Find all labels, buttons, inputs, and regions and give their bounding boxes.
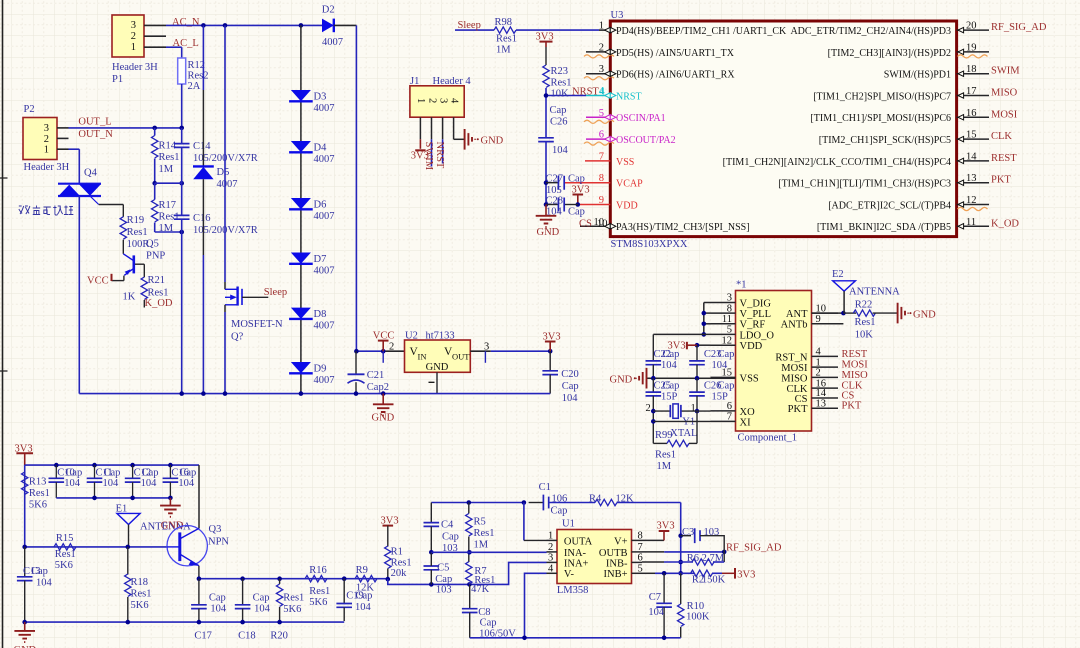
svg-text:MISO: MISO (842, 370, 869, 381)
svg-text:1: 1 (415, 98, 426, 103)
svg-text:4007: 4007 (314, 211, 335, 222)
svg-text:C5: C5 (437, 563, 449, 574)
svg-text:Res1: Res1 (855, 317, 876, 328)
svg-text:U3: U3 (611, 10, 624, 21)
svg-text:E2: E2 (832, 269, 844, 280)
svg-text:R9: R9 (356, 565, 368, 576)
svg-text:104: 104 (562, 393, 579, 404)
svg-text:ANTENNA: ANTENNA (849, 286, 900, 297)
svg-text:Cap2: Cap2 (367, 382, 389, 393)
svg-text:ht7133: ht7133 (426, 331, 455, 342)
svg-text:Cap: Cap (442, 532, 459, 543)
svg-text:104: 104 (210, 604, 227, 615)
svg-text:3V3: 3V3 (657, 520, 675, 531)
svg-text:[TIM1_CH2]SPI_MISO/(HS)PC7: [TIM1_CH2]SPI_MISO/(HS)PC7 (813, 91, 951, 102)
svg-text:Res1: Res1 (131, 589, 152, 600)
svg-text:GND: GND (537, 227, 560, 238)
svg-text:[TIM1_CH2N][AIN2]/CLK_CCO/TIM1: [TIM1_CH2N][AIN2]/CLK_CCO/TIM1_CH4/(HS)P… (723, 157, 951, 168)
svg-text:D8: D8 (314, 309, 327, 320)
svg-text:ANT: ANT (786, 309, 808, 320)
svg-text:2: 2 (645, 403, 650, 414)
svg-text:R19: R19 (127, 215, 145, 226)
svg-text:Cap: Cap (568, 174, 585, 185)
svg-text:[TIM1_CH1N][TLI]/TIM1_CH3/(HS): [TIM1_CH1N][TLI]/TIM1_CH3/(HS)PC3 (778, 179, 951, 190)
svg-text:LDO_O: LDO_O (740, 330, 775, 341)
svg-text:XTAL: XTAL (670, 428, 697, 439)
svg-text:VDD: VDD (740, 341, 763, 352)
svg-text:R10: R10 (687, 601, 705, 612)
svg-text:11: 11 (966, 217, 976, 228)
svg-text:1: 1 (691, 403, 696, 414)
svg-text:R14: R14 (159, 141, 177, 152)
svg-text:STM8S103XPXX: STM8S103XPXX (611, 239, 688, 250)
svg-text:V+: V+ (614, 536, 628, 547)
svg-text:104: 104 (178, 478, 195, 489)
svg-text:13: 13 (966, 173, 977, 184)
svg-text:6: 6 (727, 401, 732, 412)
svg-text:18: 18 (966, 64, 977, 75)
svg-text:R6 2.7M: R6 2.7M (687, 553, 725, 564)
svg-text:3: 3 (548, 552, 553, 563)
svg-text:K_OD: K_OD (991, 218, 1019, 229)
svg-text:IN: IN (418, 352, 427, 362)
svg-text:104: 104 (712, 360, 729, 371)
svg-text:R18: R18 (131, 577, 149, 588)
svg-text:Res1: Res1 (159, 212, 180, 223)
svg-text:R21: R21 (148, 275, 166, 286)
svg-text:D6: D6 (314, 200, 327, 211)
svg-text:Res1: Res1 (159, 152, 180, 163)
svg-text:V_PLL: V_PLL (740, 309, 772, 320)
svg-text:R98: R98 (495, 17, 513, 28)
svg-text:RF_SIG_AD: RF_SIG_AD (991, 22, 1047, 33)
svg-text:V_RF: V_RF (740, 320, 766, 331)
svg-text:5K6: 5K6 (131, 600, 149, 611)
svg-text:6: 6 (638, 552, 643, 563)
svg-text:D7: D7 (314, 254, 327, 265)
svg-text:4007: 4007 (314, 103, 335, 114)
svg-text:2: 2 (131, 31, 136, 42)
svg-text:R5: R5 (474, 517, 486, 528)
svg-text:Cap: Cap (104, 467, 121, 478)
svg-text:OSCIN/PA1: OSCIN/PA1 (616, 113, 666, 124)
svg-text:105: 105 (546, 185, 562, 196)
svg-text:NRST: NRST (616, 91, 642, 102)
svg-text:1M: 1M (496, 45, 511, 56)
svg-text:Res1: Res1 (29, 488, 50, 499)
svg-text:4007: 4007 (217, 179, 238, 190)
svg-text:OUTB: OUTB (599, 548, 628, 559)
svg-text:*1: *1 (736, 280, 747, 291)
svg-text:2: 2 (548, 542, 553, 553)
svg-text:3: 3 (437, 98, 448, 103)
svg-text:PA3(HS)/TIM2_CH3/[SPI_NSS]: PA3(HS)/TIM2_CH3/[SPI_NSS] (616, 222, 750, 233)
svg-text:C1: C1 (539, 482, 551, 493)
svg-text:4: 4 (448, 98, 459, 104)
svg-text:5: 5 (638, 563, 643, 574)
svg-text:OUTA: OUTA (564, 536, 593, 547)
svg-text:Q5: Q5 (146, 239, 159, 250)
svg-text:R1: R1 (391, 547, 403, 558)
svg-text:Cap: Cap (568, 207, 585, 218)
svg-text:U2: U2 (405, 331, 418, 342)
svg-text:10K: 10K (551, 89, 570, 100)
svg-text:MISO: MISO (781, 373, 808, 384)
svg-text:Header 3H: Header 3H (112, 62, 158, 73)
svg-text:SWIM: SWIM (991, 66, 1020, 77)
svg-text:1: 1 (44, 145, 49, 156)
svg-text:1: 1 (131, 42, 136, 53)
svg-text:VCC: VCC (373, 331, 395, 342)
svg-text:MISO: MISO (991, 88, 1018, 99)
svg-text:Cap: Cap (31, 566, 48, 577)
svg-text:Res1: Res1 (474, 528, 495, 539)
svg-text:Header 4: Header 4 (433, 76, 472, 87)
svg-text:GND: GND (481, 136, 504, 147)
svg-text:C8: C8 (478, 607, 490, 618)
svg-text:Sleep: Sleep (458, 20, 481, 31)
svg-text:7: 7 (727, 412, 732, 423)
svg-text:3V3: 3V3 (543, 331, 561, 342)
svg-text:Cap: Cap (718, 381, 735, 392)
svg-text:3: 3 (131, 20, 136, 31)
svg-text:[TIM1_CH1]/SPI_MOSI/(HS)PC6: [TIM1_CH1]/SPI_MOSI/(HS)PC6 (810, 113, 951, 124)
svg-text:1M: 1M (474, 540, 489, 551)
svg-text:INB-: INB- (606, 558, 628, 569)
svg-text:104: 104 (36, 578, 53, 589)
svg-text:P1: P1 (112, 74, 123, 85)
svg-text:C16: C16 (193, 213, 211, 224)
svg-text:Sleep: Sleep (264, 287, 287, 298)
svg-text:OUT_N: OUT_N (78, 129, 113, 140)
svg-text:Res1: Res1 (283, 593, 304, 604)
svg-text:5: 5 (727, 325, 732, 336)
svg-text:104: 104 (661, 360, 678, 371)
svg-text:NPN: NPN (208, 537, 229, 548)
svg-text:P2: P2 (24, 104, 35, 115)
svg-text:Res1: Res1 (391, 558, 412, 569)
svg-text:47K: 47K (471, 584, 490, 595)
svg-text:R20: R20 (270, 631, 288, 642)
svg-text:11: 11 (722, 314, 732, 325)
svg-text:PD5(HS) /AIN5/UART1_TX: PD5(HS) /AIN5/UART1_TX (616, 48, 735, 59)
svg-text:Cap: Cap (179, 467, 196, 478)
svg-text:LM358: LM358 (557, 585, 589, 596)
svg-text:10K: 10K (855, 330, 874, 341)
svg-text:104: 104 (355, 602, 372, 613)
svg-text:4007: 4007 (322, 37, 343, 48)
svg-text:C26: C26 (550, 117, 568, 128)
svg-text:R16: R16 (309, 565, 327, 576)
svg-text:15P: 15P (712, 392, 729, 403)
svg-text:Header 3H: Header 3H (24, 162, 70, 173)
svg-text:Cap: Cap (551, 506, 568, 517)
svg-text:VCAP: VCAP (616, 179, 643, 190)
svg-text:CS: CS (579, 219, 592, 230)
svg-text:[TIM1_BKIN]I2C_SDA /(T)PB5: [TIM1_BKIN]I2C_SDA /(T)PB5 (817, 222, 951, 233)
svg-text:NRST: NRST (434, 142, 445, 169)
svg-text:Cap: Cap (562, 381, 579, 392)
svg-text:104: 104 (254, 604, 271, 615)
svg-text:R17: R17 (159, 200, 177, 211)
svg-text:OSCOUT/PA2: OSCOUT/PA2 (616, 135, 676, 146)
svg-text:Res1: Res1 (55, 549, 76, 560)
svg-text:Cap: Cap (718, 349, 735, 360)
svg-text:GND: GND (426, 362, 449, 373)
svg-text:4007: 4007 (314, 321, 335, 332)
svg-text:D5: D5 (217, 167, 230, 178)
svg-text:4: 4 (816, 347, 822, 358)
svg-text:C21: C21 (367, 370, 385, 381)
svg-text:12: 12 (966, 195, 977, 206)
svg-text:2: 2 (389, 342, 394, 353)
svg-text:AC_N: AC_N (172, 17, 200, 28)
svg-text:Res1: Res1 (309, 586, 330, 597)
svg-text:PD6(HS) /AIN6/UART1_RX: PD6(HS) /AIN6/UART1_RX (616, 70, 735, 81)
svg-text:PD4(HS)/BEEP/TIM2_CH1 /UART1_C: PD4(HS)/BEEP/TIM2_CH1 /UART1_CK (616, 26, 787, 37)
svg-text:Cap: Cap (253, 593, 270, 604)
svg-text:2: 2 (426, 98, 437, 103)
svg-text:NRST: NRST (572, 87, 599, 98)
svg-text:104: 104 (64, 478, 81, 489)
svg-text:1: 1 (548, 530, 553, 541)
svg-text:R12: R12 (188, 60, 206, 71)
svg-text:Cap: Cap (435, 574, 452, 585)
svg-text:XO: XO (740, 407, 756, 418)
svg-text:4007: 4007 (314, 375, 335, 386)
svg-text:INB+: INB+ (603, 569, 627, 580)
svg-text:V_DIG: V_DIG (740, 298, 772, 309)
svg-text:Q4: Q4 (84, 168, 98, 179)
svg-text:C20: C20 (561, 369, 579, 380)
svg-text:104: 104 (103, 478, 120, 489)
svg-text:Res1: Res1 (496, 34, 517, 45)
svg-text:Cap: Cap (65, 467, 82, 478)
svg-text:5K6: 5K6 (283, 604, 301, 615)
svg-text:C7: C7 (649, 592, 661, 603)
svg-text:U1: U1 (562, 519, 575, 530)
svg-text:16: 16 (966, 108, 977, 119)
svg-text:K_OD: K_OD (145, 298, 173, 309)
svg-text:1K: 1K (123, 292, 136, 303)
svg-text:13: 13 (816, 399, 827, 410)
svg-text:INA+: INA+ (564, 558, 589, 569)
svg-text:Res1: Res1 (551, 78, 572, 89)
svg-text:Res1: Res1 (127, 227, 148, 238)
svg-text:2: 2 (44, 134, 49, 145)
svg-text:1: 1 (599, 21, 604, 32)
svg-text:19: 19 (966, 42, 977, 53)
svg-text:[TIM2_CH1]SPI_SCK/(HS)PC5: [TIM2_CH1]SPI_SCK/(HS)PC5 (819, 135, 951, 146)
svg-text:C28: C28 (546, 195, 564, 206)
svg-text:12: 12 (722, 335, 733, 346)
svg-text:OUT_L: OUT_L (78, 116, 111, 127)
svg-text:R22: R22 (855, 299, 873, 310)
svg-text:3: 3 (727, 293, 732, 304)
svg-text:C27: C27 (546, 173, 564, 184)
svg-text:ADC_ETR/TIM2_CH2/AIN4/(HS)PD3: ADC_ETR/TIM2_CH2/AIN4/(HS)PD3 (790, 26, 951, 37)
svg-text:C3: C3 (682, 527, 694, 538)
svg-text:C18: C18 (238, 631, 256, 642)
svg-text:2A: 2A (188, 81, 201, 92)
svg-text:2: 2 (816, 368, 821, 379)
svg-text:VSS: VSS (740, 373, 759, 384)
svg-text:Cap: Cap (142, 467, 159, 478)
svg-text:8: 8 (727, 303, 732, 314)
svg-text:VCC: VCC (87, 276, 109, 287)
svg-text:Cap: Cap (550, 105, 567, 116)
svg-text:R13: R13 (29, 477, 47, 488)
svg-text:D9: D9 (314, 364, 327, 375)
svg-text:XI: XI (740, 417, 752, 428)
svg-text:Cap: Cap (209, 593, 226, 604)
svg-text:[TIM2_CH3][AIN3]/(HS)PD2: [TIM2_CH3][AIN3]/(HS)PD2 (828, 48, 951, 59)
svg-text:PNP: PNP (146, 251, 165, 262)
svg-text:20: 20 (966, 21, 977, 32)
svg-text:ANTb: ANTb (781, 320, 808, 331)
svg-text:4: 4 (600, 87, 606, 98)
svg-text:Cap: Cap (356, 591, 373, 602)
svg-text:VDD: VDD (616, 200, 638, 211)
svg-text:Cap: Cap (663, 381, 680, 392)
svg-text:104: 104 (552, 145, 569, 156)
svg-text:15P: 15P (661, 392, 678, 403)
svg-text:3V3: 3V3 (737, 570, 755, 581)
svg-text:C17: C17 (194, 631, 212, 642)
svg-text:RF_SIG_AD: RF_SIG_AD (726, 542, 782, 553)
svg-text:4007: 4007 (314, 266, 335, 277)
svg-text:V-: V- (564, 569, 575, 580)
svg-text:R4: R4 (589, 494, 602, 505)
svg-text:SWIM: SWIM (423, 142, 434, 171)
svg-text:D2: D2 (322, 5, 335, 16)
svg-text:5K6: 5K6 (55, 560, 73, 571)
svg-text:104: 104 (141, 478, 158, 489)
svg-text:OUT: OUT (452, 352, 470, 362)
svg-text:D3: D3 (314, 92, 327, 103)
svg-text:Component_1: Component_1 (738, 433, 798, 444)
svg-text:R99: R99 (655, 430, 673, 441)
svg-text:REST: REST (991, 153, 1017, 164)
svg-text:Cap: Cap (663, 349, 680, 360)
svg-text:R15: R15 (56, 533, 74, 544)
svg-text:Res1: Res1 (655, 450, 676, 461)
svg-text:1M: 1M (159, 164, 174, 175)
svg-text:R23: R23 (551, 66, 569, 77)
svg-text:14: 14 (966, 151, 977, 162)
svg-text:GND: GND (372, 413, 395, 424)
svg-text:C4: C4 (441, 520, 454, 531)
svg-text:GND: GND (610, 374, 633, 385)
svg-text:10: 10 (597, 219, 608, 230)
svg-text:D4: D4 (314, 143, 328, 154)
svg-text:3: 3 (44, 123, 49, 134)
svg-text:8: 8 (638, 530, 643, 541)
svg-text:4007: 4007 (314, 154, 335, 165)
svg-text:INA-: INA- (564, 548, 587, 559)
svg-text:PKT: PKT (842, 401, 862, 412)
svg-text:MOSI: MOSI (991, 109, 1018, 120)
svg-text:SWIM/(HS)PD1: SWIM/(HS)PD1 (884, 70, 951, 81)
svg-text:REST: REST (842, 349, 868, 360)
svg-text:100K: 100K (686, 612, 710, 623)
svg-text:GND: GND (913, 309, 936, 320)
svg-text:5K6: 5K6 (309, 597, 327, 608)
svg-text:Q?: Q? (231, 332, 244, 343)
svg-text:104: 104 (648, 607, 665, 618)
svg-text:MOSFET-N: MOSFET-N (231, 319, 283, 330)
svg-text:PKT: PKT (788, 404, 808, 415)
svg-text:15: 15 (966, 130, 977, 141)
svg-text:PKT: PKT (991, 175, 1011, 186)
svg-text:20k: 20k (391, 568, 408, 579)
svg-text:7: 7 (638, 542, 643, 553)
svg-text:17: 17 (966, 86, 977, 97)
svg-text:CLK: CLK (991, 131, 1012, 142)
svg-text:Cap: Cap (480, 618, 497, 629)
svg-text:[ADC_ETR]I2C_SCL/(T)PB4: [ADC_ETR]I2C_SCL/(T)PB4 (828, 200, 951, 211)
svg-text:RST_N: RST_N (775, 352, 808, 363)
svg-text:103: 103 (436, 585, 452, 596)
svg-text:Q3: Q3 (209, 524, 222, 535)
svg-text:VSS: VSS (616, 157, 634, 168)
svg-text:J1: J1 (410, 76, 419, 87)
svg-text:150K: 150K (702, 575, 726, 586)
svg-text:5K6: 5K6 (29, 500, 47, 511)
svg-text:1M: 1M (657, 461, 672, 472)
svg-text:Res2: Res2 (188, 71, 209, 82)
svg-text:4: 4 (548, 563, 554, 574)
svg-text:C14: C14 (193, 141, 211, 152)
